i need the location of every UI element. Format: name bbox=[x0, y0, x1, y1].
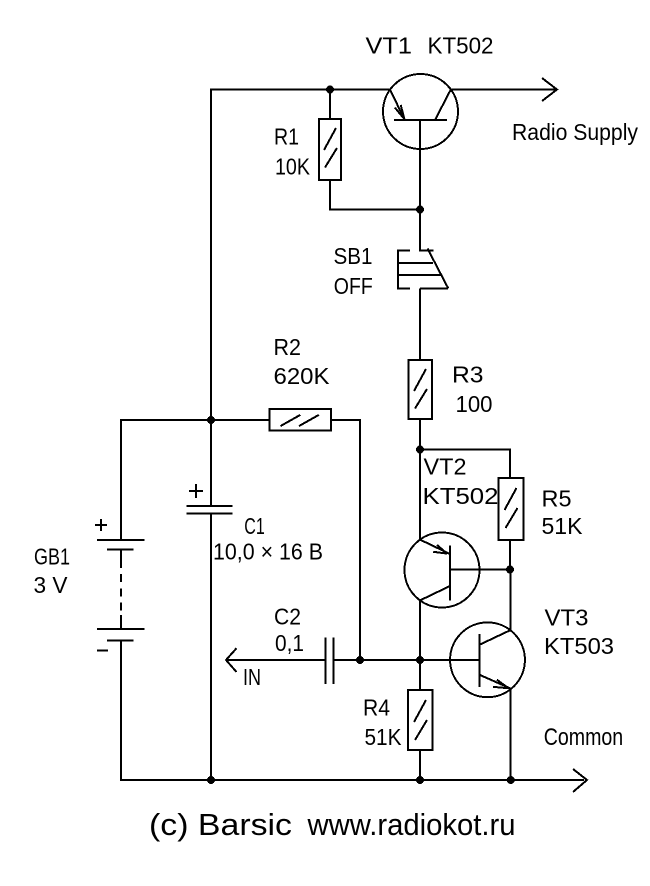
label VT3 bbox=[545, 605, 589, 631]
wire emitter node to R5 top bbox=[420, 450, 510, 479]
svg-text:R5: R5 bbox=[542, 486, 572, 512]
svg-text:R3: R3 bbox=[452, 362, 484, 388]
node junction R3/R5/VT2 bbox=[416, 446, 424, 454]
wire top rail from left riser to VT1 emitter bbox=[210, 89, 390, 91]
switch SB1 bbox=[398, 249, 448, 290]
transistor VT3 bbox=[450, 622, 525, 697]
svg-text:KT502: KT502 bbox=[423, 483, 499, 509]
label R4 bbox=[363, 695, 390, 721]
wire VT1 base down to SB1 bbox=[419, 120, 421, 251]
wire VT3 collector up to node bbox=[510, 570, 512, 631]
resistor R3 bbox=[409, 360, 433, 419]
wire R1 bottom to VT1 base line bbox=[330, 180, 420, 210]
node junction VT3 emitter at rail bbox=[507, 776, 515, 784]
resistor R5 bbox=[499, 478, 524, 540]
arrow Radio Supply bbox=[542, 78, 557, 101]
svg-text:(c) Barsic: (c) Barsic bbox=[149, 807, 292, 842]
node junction battery feed bbox=[207, 416, 215, 424]
svg-text:IN: IN bbox=[243, 664, 261, 690]
svg-text:620K: 620K bbox=[274, 363, 331, 389]
svg-text:VT3: VT3 bbox=[545, 605, 589, 631]
label R2 bbox=[274, 334, 302, 360]
label R5 bbox=[542, 486, 572, 512]
label VT2 bbox=[424, 454, 467, 480]
arrow IN bbox=[226, 648, 326, 672]
label 51K R4 bbox=[365, 724, 403, 750]
arrow Common rail bbox=[573, 769, 587, 792]
wire VT3 emitter down to ground rail bbox=[510, 689, 512, 780]
label VT1 KT502 bbox=[366, 33, 494, 59]
C1 plus sign bbox=[189, 484, 203, 498]
resistor R4 bbox=[408, 690, 433, 750]
svg-text:R2: R2 bbox=[274, 334, 302, 360]
label Radio Supply bbox=[512, 119, 638, 145]
node junction left riser at ground rail bbox=[207, 776, 215, 784]
label IN bbox=[243, 664, 261, 690]
wire R1 top bbox=[329, 90, 331, 120]
wire battery top feed bbox=[121, 420, 270, 540]
svg-text:3 V: 3 V bbox=[34, 572, 69, 598]
svg-text:R1: R1 bbox=[274, 124, 299, 150]
label GB1 bbox=[34, 544, 70, 570]
wire C2 right plate to VT3 base bbox=[334, 659, 480, 661]
svg-text:51K: 51K bbox=[542, 513, 584, 539]
wire R4 bottom to rail bbox=[419, 750, 421, 780]
svg-text:GB1: GB1 bbox=[34, 544, 70, 570]
battery plus sign bbox=[95, 519, 107, 531]
svg-text:R4: R4 bbox=[363, 695, 390, 721]
node junction R1 top bbox=[326, 86, 334, 94]
label KT502 VT2 bbox=[423, 483, 499, 509]
wire R4 top bbox=[419, 660, 421, 690]
svg-text:www.radiokot.ru: www.radiokot.ru bbox=[307, 807, 516, 842]
svg-text:Common: Common bbox=[544, 724, 624, 751]
label R3 bbox=[452, 362, 484, 388]
label 3 V bbox=[34, 572, 69, 598]
label 620K bbox=[274, 363, 331, 389]
wire R3 bottom to VT2 emitter node bbox=[419, 419, 421, 540]
svg-text:10,0 × 16 B: 10,0 × 16 B bbox=[213, 539, 323, 565]
capacitor C2 bbox=[326, 638, 334, 685]
wire C1 bottom to ground rail bbox=[210, 514, 212, 781]
node junction VT2 base / VT3 collector bbox=[506, 566, 514, 574]
svg-text:SB1: SB1 bbox=[334, 243, 373, 269]
svg-text:51K: 51K bbox=[365, 724, 403, 750]
label 51K bbox=[542, 513, 584, 539]
node junction R4 at rail bbox=[416, 776, 424, 784]
label Common bbox=[544, 724, 624, 751]
node junction R1/VT1 base bbox=[416, 206, 424, 214]
svg-text:C2: C2 bbox=[274, 603, 301, 629]
wire battery bottom to ground rail bbox=[121, 640, 584, 780]
transistor VT2 bbox=[405, 533, 511, 608]
label 100 bbox=[456, 391, 493, 417]
label 10K bbox=[275, 154, 311, 180]
wire VT2 collector down to base line of VT3 bbox=[419, 600, 421, 660]
capacitor C1 bbox=[187, 506, 233, 514]
svg-text:10K: 10K bbox=[275, 154, 311, 180]
label C1 bbox=[244, 513, 264, 539]
svg-text:0,1: 0,1 bbox=[275, 630, 304, 656]
wire SB1 bottom to R3 bbox=[419, 289, 421, 361]
svg-text:Radio Supply: Radio Supply bbox=[512, 119, 638, 145]
svg-text:OFF: OFF bbox=[334, 273, 373, 299]
label R1 bbox=[274, 124, 299, 150]
svg-text:KT503: KT503 bbox=[544, 633, 614, 659]
label 0,1 bbox=[275, 630, 304, 656]
svg-text:KT502: KT502 bbox=[428, 33, 494, 59]
svg-text:C1: C1 bbox=[244, 513, 264, 539]
label SB1 bbox=[334, 243, 373, 269]
battery minus sign bbox=[97, 650, 108, 652]
node junction VT2 collector / R4 / VT3 base line bbox=[416, 656, 424, 664]
label 10,0 x 16 B bbox=[213, 539, 323, 565]
node junction C2/R2 bbox=[356, 656, 364, 664]
label OFF bbox=[334, 273, 373, 299]
transistor VT1 bbox=[383, 74, 458, 149]
battery GB1 bbox=[97, 540, 145, 641]
label copyright Barsic www.radiokot.ru bbox=[149, 807, 516, 842]
wire left riser x=211 bbox=[210, 89, 212, 507]
label KT503 bbox=[544, 633, 614, 659]
wire R2 right down to C2 node bbox=[331, 420, 360, 660]
wire R5 bottom to base node bbox=[509, 540, 511, 570]
label C2 bbox=[274, 603, 301, 629]
resistor R2 bbox=[270, 409, 332, 431]
svg-text:100: 100 bbox=[456, 391, 493, 417]
svg-text:VT1: VT1 bbox=[366, 33, 413, 59]
resistor R1 bbox=[319, 119, 341, 180]
svg-text:VT2: VT2 bbox=[424, 454, 467, 480]
wire VT1 collector to Radio Supply arrow bbox=[451, 89, 555, 91]
